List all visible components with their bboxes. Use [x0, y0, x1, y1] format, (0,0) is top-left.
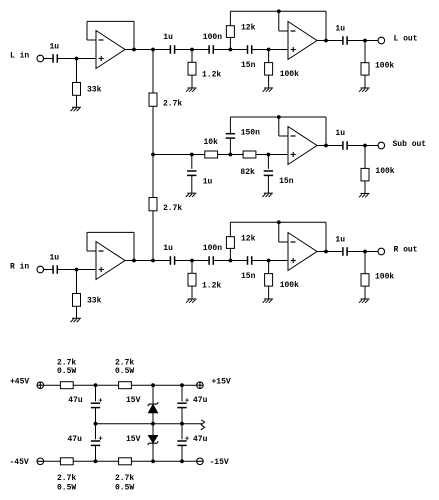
resistor R5 100k	[265, 63, 273, 76]
node L sum takeoff junction	[151, 48, 155, 52]
wire	[230, 260, 247, 262]
wire R15 to ground	[364, 286, 366, 299]
junction at C6	[190, 153, 194, 157]
node U2 output junction	[324, 39, 328, 43]
svg-text:-45V: -45V	[10, 458, 29, 467]
terminal -15V	[197, 458, 204, 465]
wire down to R12	[191, 261, 193, 274]
node R filter node B	[267, 259, 271, 263]
wire to C2	[153, 49, 170, 51]
node -15V filter junction right	[180, 459, 184, 463]
zener diode D1 15V	[148, 402, 159, 413]
svg-text:1u: 1u	[335, 236, 345, 245]
terminal R in	[37, 266, 44, 273]
ground	[359, 88, 370, 92]
svg-text:150n: 150n	[241, 128, 260, 137]
wire +rail to C15	[95, 385, 97, 401]
node sub summing junction	[151, 153, 155, 157]
wire sub node down to R11	[152, 155, 154, 198]
wire down to C6	[191, 155, 193, 169]
op-amp U4 unity buffer	[96, 242, 125, 280]
wire L sum node down to R2	[152, 50, 154, 94]
capacitor C17 47u electrolytic	[91, 441, 100, 445]
wire to U2 - input	[279, 30, 288, 32]
node R input junction	[75, 268, 79, 272]
wire -45V rail	[44, 460, 197, 462]
wire sub filter chain	[153, 154, 288, 156]
ground	[263, 88, 274, 92]
ground	[263, 299, 274, 303]
capacitor C2 1u	[170, 45, 174, 54]
svg-text:100k: 100k	[375, 272, 394, 281]
capacitor C11 1u	[170, 256, 174, 265]
node U3 output junction	[324, 144, 328, 148]
node L filter node A	[229, 48, 233, 52]
wire U4 feedback right vertical	[133, 232, 135, 260]
svg-text:2.7k: 2.7k	[163, 204, 182, 213]
resistor R8 82k	[243, 151, 256, 158]
resistor R17 2.7k 0.5W	[119, 382, 132, 389]
wire U5 output	[317, 251, 343, 253]
node L input junction	[75, 57, 79, 61]
svg-text:1u: 1u	[50, 43, 60, 52]
capacitor C10 1u input coupling	[53, 265, 57, 274]
terminal Sub out	[378, 142, 385, 149]
svg-text:100n: 100n	[203, 244, 222, 253]
wire down to U3 - input	[278, 117, 280, 136]
wire to C11	[153, 260, 170, 262]
svg-text:-15V: -15V	[210, 458, 229, 467]
wire down to U2 - input	[278, 11, 280, 31]
zener diode D2 15V	[148, 435, 159, 445]
wire R3 to ground	[191, 75, 193, 88]
svg-text:+15V: +15V	[212, 378, 231, 387]
wire	[213, 49, 230, 51]
svg-text:1u: 1u	[335, 25, 345, 34]
wire R11 down to R channel sum node	[152, 211, 154, 261]
svg-text:47u: 47u	[193, 396, 208, 405]
svg-text:1u: 1u	[203, 177, 213, 186]
svg-text:12k: 12k	[241, 235, 256, 244]
wire D2 cathode to -rail	[152, 443, 154, 461]
svg-text:100n: 100n	[203, 33, 222, 42]
wire to U5 - input	[279, 241, 288, 243]
wire R10 to ground	[76, 306, 78, 318]
wire U1 feedback top	[87, 20, 134, 22]
resistor R16 2.7k 0.5W	[60, 382, 73, 389]
wire C17 to -rail	[95, 445, 97, 461]
resistor R13 12k	[226, 237, 234, 249]
capacitor C12 100n	[209, 256, 213, 265]
terminal +15V	[197, 382, 204, 389]
resistor R9 100k output load	[361, 168, 369, 181]
wire to U3 - input	[279, 135, 288, 137]
wire R1 to ground	[76, 95, 78, 107]
svg-text:0.5W: 0.5W	[115, 367, 134, 376]
svg-text:47u: 47u	[68, 396, 83, 405]
resistor R3 1.2k	[188, 62, 196, 75]
capacitor C7 150n feedback	[226, 134, 235, 138]
terminal L in	[37, 55, 44, 62]
ground	[262, 193, 273, 197]
node 0V zener junction	[151, 422, 155, 426]
wire down to R9	[364, 146, 366, 169]
wire 0V rail to C17	[95, 424, 97, 440]
wire down to C8	[267, 155, 269, 169]
svg-text:+: +	[98, 435, 103, 443]
svg-text:1.2k: 1.2k	[202, 282, 221, 291]
wire	[192, 49, 209, 51]
wire to U4 - input	[87, 250, 96, 252]
wire C6 to ground	[191, 175, 193, 193]
wire	[230, 49, 247, 51]
wire cap to opamp + input	[57, 58, 96, 60]
svg-text:100k: 100k	[375, 61, 394, 70]
wire U2 feedback top rail	[230, 10, 326, 12]
node +15V zener junction	[151, 383, 155, 387]
wire U4 output	[125, 260, 153, 262]
svg-text:1u: 1u	[163, 244, 173, 253]
wire R4 to feedback rail	[229, 11, 231, 25]
svg-text:15n: 15n	[241, 272, 256, 281]
wire +15V to D1 cathode	[152, 385, 154, 404]
wire U4 feedback top	[87, 231, 134, 233]
wire R12 to ground	[191, 286, 193, 299]
svg-text:100k: 100k	[280, 70, 299, 79]
ground	[71, 318, 82, 322]
node feedback tap junction	[277, 115, 281, 119]
wire +45V rail	[44, 384, 197, 386]
svg-text:15V: 15V	[126, 435, 141, 444]
wire R13 to feedback rail	[229, 222, 231, 236]
wire U2 output	[317, 40, 343, 42]
svg-text:47u: 47u	[193, 435, 208, 444]
svg-text:10k: 10k	[204, 138, 219, 147]
resistor R18 2.7k 0.5W	[60, 458, 73, 465]
svg-text:15V: 15V	[126, 396, 141, 405]
wire C7 to feedback rail	[229, 117, 231, 134]
wire U1 feedback left vertical	[86, 21, 88, 40]
node R filter node A	[229, 259, 233, 263]
wire to U2 + input	[252, 49, 288, 51]
wire down to R10	[76, 270, 78, 294]
wire U3 output feedback vertical	[325, 117, 327, 146]
svg-text:0.5W: 0.5W	[57, 367, 76, 376]
wire	[192, 260, 209, 262]
wire U1 feedback right vertical	[133, 21, 135, 49]
capacitor C5 1u output coupling	[343, 36, 347, 45]
node sub filter node B	[267, 153, 271, 157]
node U5 output junction	[324, 250, 328, 254]
svg-text:L in: L in	[10, 52, 29, 61]
node 0V junction left	[94, 422, 98, 426]
resistor R2 2.7k L summing	[149, 93, 157, 106]
resistor R14 100k	[265, 274, 273, 287]
node +15V filter junction left	[94, 383, 98, 387]
wire R5 to ground	[268, 75, 270, 88]
wire 0V rail to D2 anode	[152, 424, 154, 436]
svg-text:12k: 12k	[241, 24, 256, 33]
op-amp U2 high-pass filter	[288, 22, 317, 60]
svg-text:1u: 1u	[335, 129, 345, 138]
ground	[186, 299, 197, 303]
wire 0V rail to C18	[181, 424, 183, 440]
wire U5 feedback top rail	[230, 221, 326, 223]
wire D1 anode to 0V rail	[152, 413, 154, 424]
capacitor C1 1u input coupling	[53, 54, 57, 63]
svg-text:+45V: +45V	[10, 378, 29, 387]
wire U4 feedback left vertical	[86, 232, 88, 251]
wire R9 to ground	[364, 181, 366, 194]
node -15V filter junction left	[94, 459, 98, 463]
capacitor C14 1u output coupling	[343, 247, 347, 256]
wire U1 output	[125, 49, 153, 51]
node U4 output junction	[132, 259, 136, 263]
capacitor C16 47u electrolytic	[177, 403, 186, 407]
wire to L out terminal	[347, 40, 378, 42]
ground	[359, 299, 370, 303]
resistor R6 100k output load	[361, 63, 369, 75]
svg-text:+: +	[98, 398, 103, 406]
resistor R12 1.2k	[188, 273, 196, 286]
terminal R out	[378, 248, 385, 255]
node L filter node B	[267, 48, 271, 52]
resistor R15 100k output load	[361, 274, 369, 286]
wire up to C7	[229, 138, 231, 155]
wire down to R15	[364, 252, 366, 274]
svg-text:33k: 33k	[87, 86, 102, 95]
resistor R10 33k	[73, 294, 81, 307]
wire to U5 + input	[252, 260, 288, 262]
wire +rail to C16	[181, 385, 183, 401]
svg-text:R out: R out	[394, 245, 418, 254]
wire U3 output	[317, 145, 343, 147]
capacitor C6 1u shunt	[187, 171, 196, 175]
wire up to R13	[229, 248, 231, 260]
wire down to R1	[76, 59, 78, 83]
wire to U1 - input	[87, 39, 96, 41]
wire U5 output feedback vertical	[325, 222, 327, 251]
capacitor C13 15n	[248, 256, 252, 265]
node 0V junction right	[180, 422, 184, 426]
capacitor C18 47u electrolytic	[177, 441, 186, 445]
op-amp U5 high-pass filter	[288, 233, 317, 271]
capacitor C8 15n shunt	[264, 171, 273, 175]
wire cap to opamp + input	[57, 269, 96, 271]
op-amp U1 unity buffer	[96, 31, 125, 69]
ground	[71, 107, 82, 111]
svg-text:0.5W: 0.5W	[57, 484, 76, 493]
0V rail break squiggle	[201, 420, 205, 430]
wire U3 feedback top rail	[230, 116, 326, 118]
wire R14 to ground	[268, 286, 270, 299]
ground	[186, 193, 197, 197]
junction at R12	[190, 259, 194, 263]
node feedback tap junction	[277, 220, 281, 224]
svg-text:1u: 1u	[163, 33, 173, 42]
node sub filter node A	[229, 153, 233, 157]
ground	[359, 194, 370, 198]
svg-text:+: +	[185, 435, 190, 443]
resistor R7 10k	[205, 151, 218, 158]
wire to R out terminal	[347, 251, 378, 253]
wire U2 output feedback vertical	[325, 11, 327, 40]
node feedback tap junction	[277, 9, 281, 13]
wire down to R3	[191, 50, 193, 63]
node R output junction	[363, 250, 367, 254]
op-amp U3 sub low-pass filter	[288, 127, 317, 165]
capacitor C9 1u output coupling	[343, 141, 347, 150]
svg-text:L out: L out	[394, 34, 418, 43]
svg-text:0.5W: 0.5W	[115, 484, 134, 493]
svg-text:82k: 82k	[240, 168, 255, 177]
terminal +45V	[37, 382, 44, 389]
wire down to R6	[364, 41, 366, 63]
wire R input to cap	[44, 269, 54, 271]
wire	[213, 260, 230, 262]
svg-text:2.7k: 2.7k	[163, 99, 182, 108]
wire C8 to ground	[267, 175, 269, 193]
svg-text:Sub out: Sub out	[393, 140, 427, 149]
wire	[175, 49, 192, 51]
node sub output junction	[363, 144, 367, 148]
wire C18 to -rail	[181, 445, 183, 461]
wire down to R14	[268, 261, 270, 274]
junction at R3	[190, 48, 194, 52]
wire L input to cap	[44, 58, 54, 60]
ground	[186, 88, 197, 92]
svg-text:R in: R in	[10, 263, 29, 272]
node U1 output junction	[132, 48, 136, 52]
terminal L out	[378, 37, 385, 44]
resistor R1 33k	[73, 83, 81, 96]
node -15V zener junction	[151, 459, 155, 463]
node R sum takeoff junction	[151, 259, 155, 263]
wire C15 to 0V rail	[95, 408, 97, 424]
svg-text:1.2k: 1.2k	[202, 71, 221, 80]
wire R2 to sub input node	[152, 106, 154, 154]
svg-text:47u: 47u	[68, 435, 83, 444]
svg-text:+: +	[185, 398, 190, 406]
resistor R4 12k	[226, 26, 234, 38]
svg-text:15n: 15n	[241, 61, 256, 70]
wire 0V rail	[96, 423, 203, 425]
svg-text:2.7k: 2.7k	[115, 474, 134, 483]
terminal -45V	[37, 458, 44, 465]
svg-text:1u: 1u	[50, 254, 60, 263]
svg-text:15n: 15n	[279, 177, 294, 186]
svg-text:33k: 33k	[87, 297, 102, 306]
wire	[175, 260, 192, 262]
wire R6 to ground	[364, 75, 366, 88]
node L output junction	[363, 39, 367, 43]
capacitor C3 100n	[209, 45, 213, 54]
node +15V filter junction right	[180, 383, 184, 387]
capacitor C4 15n	[248, 45, 252, 54]
wire down to R5	[268, 50, 270, 63]
svg-text:2.7k: 2.7k	[57, 474, 76, 483]
capacitor C15 47u electrolytic	[91, 403, 100, 407]
svg-text:100k: 100k	[375, 167, 394, 176]
wire up to R4	[229, 37, 231, 49]
wire down to U5 - input	[278, 222, 280, 242]
svg-text:100k: 100k	[280, 281, 299, 290]
resistor R19 2.7k 0.5W	[119, 458, 132, 465]
wire C16 to 0V rail	[181, 408, 183, 424]
wire to Sub out terminal	[347, 145, 378, 147]
resistor R11 2.7k R summing	[149, 198, 157, 211]
